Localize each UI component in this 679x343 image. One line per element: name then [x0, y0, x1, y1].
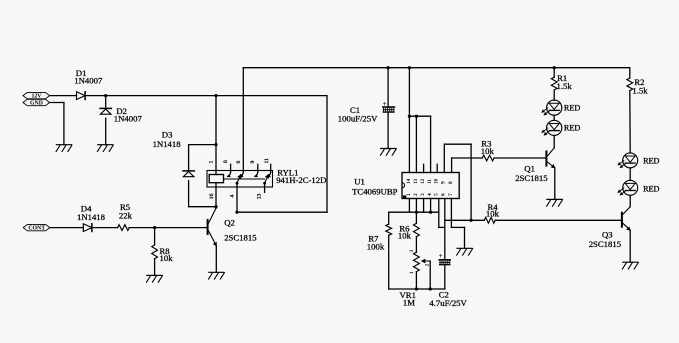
svg-text:10k: 10k	[398, 231, 412, 241]
svg-text:9: 9	[250, 160, 256, 163]
svg-text:1N4007: 1N4007	[114, 114, 143, 124]
svg-text:Q2: Q2	[224, 218, 235, 228]
svg-text:GND: GND	[30, 101, 43, 107]
svg-text:1M: 1M	[403, 298, 415, 308]
svg-text:13: 13	[414, 178, 419, 184]
svg-text:3: 3	[410, 249, 415, 252]
svg-text:2SC1815: 2SC1815	[515, 173, 547, 183]
svg-text:U1: U1	[354, 177, 365, 187]
svg-text:11: 11	[428, 179, 433, 184]
svg-text:4: 4	[428, 193, 433, 196]
svg-text:4.7uF/25V: 4.7uF/25V	[429, 298, 467, 308]
svg-text:16: 16	[209, 193, 215, 199]
svg-text:10k: 10k	[481, 146, 495, 156]
svg-text:2SC1815: 2SC1815	[224, 233, 256, 243]
svg-text:941H-2C-12D: 941H-2C-12D	[276, 175, 326, 185]
svg-text:9: 9	[442, 181, 447, 184]
svg-text:1N4007: 1N4007	[74, 75, 103, 85]
svg-text:1: 1	[209, 161, 215, 164]
svg-text:4: 4	[230, 195, 236, 198]
svg-text:5: 5	[435, 193, 440, 196]
svg-text:1.5k: 1.5k	[632, 86, 648, 96]
svg-text:8: 8	[223, 160, 229, 163]
svg-text:1: 1	[410, 271, 415, 274]
svg-text:CONT: CONT	[28, 226, 45, 232]
svg-text:+: +	[439, 252, 443, 260]
svg-text:6: 6	[236, 161, 242, 164]
svg-text:RED: RED	[643, 157, 659, 166]
svg-text:2SC1815: 2SC1815	[589, 239, 621, 249]
svg-text:2: 2	[414, 193, 419, 196]
svg-text:14: 14	[407, 178, 412, 184]
svg-text:11: 11	[264, 158, 270, 164]
svg-text:7: 7	[449, 193, 454, 196]
svg-text:10: 10	[435, 178, 440, 184]
svg-text:6: 6	[442, 193, 447, 196]
svg-text:100uF/25V: 100uF/25V	[338, 113, 378, 123]
svg-text:12V: 12V	[32, 94, 43, 100]
svg-text:RED: RED	[564, 124, 580, 133]
svg-text:22k: 22k	[119, 211, 133, 221]
svg-text:TC4069UBP: TC4069UBP	[352, 186, 398, 196]
svg-text:1: 1	[407, 193, 412, 196]
svg-text:D3: D3	[162, 130, 173, 140]
svg-text:10k: 10k	[160, 253, 174, 263]
svg-text:8: 8	[449, 181, 454, 184]
svg-text:1N1418: 1N1418	[153, 139, 182, 149]
svg-text:10k: 10k	[486, 209, 500, 219]
svg-text:13: 13	[256, 193, 262, 199]
svg-text:12: 12	[421, 178, 426, 184]
svg-text:100k: 100k	[367, 241, 385, 251]
svg-text:RED: RED	[643, 185, 659, 194]
svg-text:1.5k: 1.5k	[557, 81, 573, 91]
svg-text:Q3: Q3	[602, 230, 613, 240]
svg-text:3: 3	[421, 193, 426, 196]
svg-text:1N1418: 1N1418	[77, 212, 106, 222]
svg-text:RED: RED	[564, 104, 580, 113]
